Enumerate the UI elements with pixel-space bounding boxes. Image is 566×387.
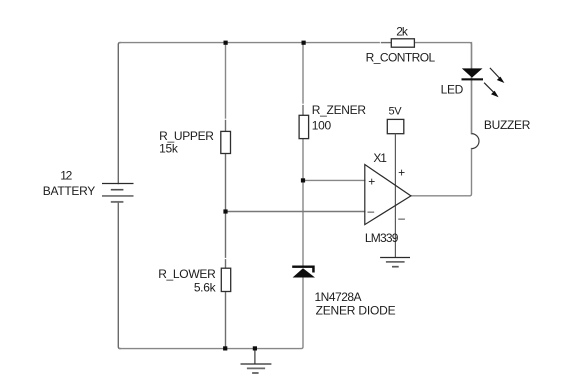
svg-text:5V: 5V [389, 106, 403, 118]
svg-text:BATTERY: BATTERY [43, 184, 95, 198]
svg-text:+: + [398, 165, 405, 179]
svg-text:12: 12 [60, 169, 72, 183]
svg-text:R_LOWER: R_LOWER [158, 267, 216, 281]
svg-text:+: + [368, 175, 375, 189]
svg-text:R_CONTROL: R_CONTROL [366, 51, 436, 65]
svg-text:100: 100 [312, 119, 332, 133]
svg-text:ZENER DIODE: ZENER DIODE [316, 303, 396, 317]
svg-text:R_ZENER: R_ZENER [312, 103, 367, 117]
svg-text:LED: LED [441, 82, 464, 96]
svg-text:5.6k: 5.6k [194, 281, 217, 295]
svg-text:–: – [368, 204, 375, 218]
svg-text:1N4728A: 1N4728A [315, 290, 362, 304]
svg-text:15k: 15k [159, 142, 179, 156]
svg-text:X1: X1 [373, 151, 387, 165]
svg-text:–: – [398, 211, 405, 225]
svg-text:BUZZER: BUZZER [484, 118, 531, 132]
svg-text:LM339: LM339 [365, 231, 399, 245]
